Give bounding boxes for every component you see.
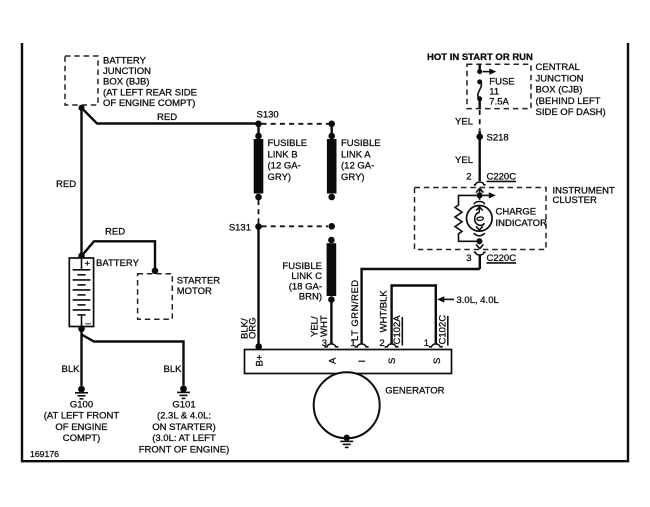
node charge indicator bottom [476, 238, 482, 244]
svg-text:C102A: C102A [392, 315, 403, 345]
label 3.0L 4.0L with arrow [437, 295, 499, 306]
generator box [245, 350, 452, 374]
svg-text:GRY): GRY) [268, 172, 292, 183]
svg-text:–: – [86, 318, 92, 329]
node BJB output [78, 105, 84, 111]
connector C220C pin 3 [466, 241, 516, 264]
resistor in cluster [455, 195, 480, 241]
svg-text:C102C: C102C [438, 315, 449, 345]
svg-text:YEL: YEL [455, 155, 473, 166]
svg-text:FUSIBLE: FUSIBLE [268, 138, 308, 149]
node battery negative [78, 326, 85, 333]
wire LT GRN/RED terminal I to C220C [350, 269, 480, 344]
wire BLK/ORG S131 to generator B+ [240, 227, 259, 349]
svg-text:3: 3 [322, 338, 327, 349]
ground G101 [139, 385, 230, 455]
svg-text:(3.0L: AT LEFT: (3.0L: AT LEFT [152, 433, 216, 444]
svg-text:1: 1 [350, 338, 355, 349]
svg-text:3: 3 [466, 253, 471, 264]
central junction box CJB [467, 62, 606, 118]
instrument cluster box [415, 186, 615, 250]
svg-text:RED: RED [56, 179, 76, 190]
svg-text:S130: S130 [257, 110, 279, 121]
svg-text:G101: G101 [172, 400, 195, 411]
svg-text:LINK C: LINK C [291, 271, 322, 282]
svg-text:MOTOR: MOTOR [177, 286, 212, 297]
svg-text:RED: RED [157, 112, 177, 123]
svg-text:+: + [85, 259, 91, 270]
node S131 [229, 223, 262, 234]
wire C220C pin 3 to generator terminal I [479, 255, 481, 269]
svg-text:3.0L, 4.0L: 3.0L, 4.0L [457, 295, 499, 306]
svg-text:OF ENGINE: OF ENGINE [55, 422, 107, 433]
svg-text:A: A [327, 357, 338, 364]
node S131 branch right [328, 223, 335, 230]
svg-text:BOX (BJB): BOX (BJB) [103, 77, 149, 88]
svg-text:COMPT): COMPT) [63, 433, 100, 444]
node battery positive [78, 253, 85, 260]
terminal S connector cup pin 1 C102C [424, 315, 449, 349]
svg-text:LT GRN/RED: LT GRN/RED [350, 279, 361, 341]
generator body circle [314, 372, 445, 438]
svg-text:SIDE OF DASH): SIDE OF DASH) [536, 107, 606, 118]
battery junction box BJB [65, 56, 197, 109]
svg-text:STARTER: STARTER [177, 276, 221, 287]
svg-text:WHT/BLK: WHT/BLK [378, 290, 389, 333]
terminal S connector cup pin 2 C102A [379, 315, 403, 349]
wire RED battery to starter motor [82, 227, 156, 270]
svg-text:1: 1 [424, 338, 429, 349]
svg-text:BLK: BLK [164, 364, 183, 375]
svg-text:S131: S131 [229, 223, 251, 234]
wire RED from BJB to battery [56, 108, 82, 256]
svg-text:BATTERY: BATTERY [96, 258, 140, 269]
fusible link B [254, 124, 307, 201]
wire RED from BJB to S130 [82, 108, 259, 124]
svg-text:I: I [357, 360, 368, 363]
svg-text:2: 2 [379, 338, 384, 349]
svg-text:CLUSTER: CLUSTER [553, 195, 597, 206]
svg-text:S: S [432, 358, 443, 364]
node starter motor terminal [152, 268, 159, 275]
fusible link A [327, 124, 381, 201]
charge indicator lamp [467, 195, 548, 235]
svg-text:YEL: YEL [455, 117, 473, 128]
svg-text:JUNCTION: JUNCTION [536, 73, 584, 84]
svg-text:S218: S218 [487, 132, 509, 143]
svg-text:G100: G100 [70, 400, 93, 411]
svg-text:(AT LEFT FRONT: (AT LEFT FRONT [44, 411, 120, 422]
starter motor [138, 274, 221, 320]
svg-text:FRONT OF ENGINE): FRONT OF ENGINE) [139, 444, 230, 455]
svg-text:(12 GA-: (12 GA- [268, 161, 301, 172]
svg-text:S: S [387, 358, 398, 364]
ground G100 [44, 386, 120, 444]
node S130 [255, 110, 278, 128]
node generator B+ terminal [255, 343, 262, 350]
svg-text:ORG: ORG [248, 317, 259, 339]
svg-text:CHARGE: CHARGE [496, 207, 537, 218]
fuse 11 7.5A [477, 64, 514, 108]
svg-text:HOT IN START OR RUN: HOT IN START OR RUN [427, 52, 533, 63]
terminal I connector cup pin 1 [350, 338, 368, 349]
svg-text:INDICATOR: INDICATOR [496, 218, 548, 229]
svg-text:(12 GA-: (12 GA- [341, 161, 374, 172]
svg-text:CENTRAL: CENTRAL [536, 62, 580, 73]
wire YEL S218 to C220C pin 2 [455, 137, 480, 181]
svg-text:WHT: WHT [319, 315, 330, 337]
node fusible link A top [328, 121, 335, 128]
svg-text:B+: B+ [255, 354, 266, 366]
svg-text:RED: RED [105, 227, 125, 238]
svg-text:BLK: BLK [62, 364, 81, 375]
wire WHT/BLK terminal S to terminal S [378, 286, 436, 345]
connector C220C pin 2 [466, 172, 516, 193]
svg-text:JUNCTION: JUNCTION [103, 66, 151, 77]
wire BLK battery to ground G101 [82, 335, 184, 386]
svg-text:OF ENGINE COMPT): OF ENGINE COMPT) [103, 98, 195, 109]
svg-text:(2.3L & 4.0L:: (2.3L & 4.0L: [157, 411, 211, 422]
ground generator case [340, 435, 353, 448]
svg-text:FUSIBLE: FUSIBLE [341, 138, 381, 149]
wire BLK battery to ground G100 [62, 329, 82, 386]
svg-text:7.5A: 7.5A [489, 96, 509, 107]
svg-text:(AT LEFT REAR SIDE: (AT LEFT REAR SIDE [103, 87, 197, 98]
node charge indicator top with arrow [477, 192, 496, 198]
svg-text:169176: 169176 [30, 449, 59, 459]
svg-text:GRY): GRY) [341, 172, 365, 183]
wire dashed link B to S131 [258, 200, 260, 224]
svg-text:LINK B: LINK B [268, 149, 298, 160]
svg-text:2: 2 [466, 172, 471, 183]
node S218 [476, 132, 508, 143]
svg-text:LINK A: LINK A [341, 149, 371, 160]
wire YEL fuse to S218 (dashed below box) [455, 110, 480, 137]
svg-text:GENERATOR: GENERATOR [385, 386, 444, 397]
svg-text:BOX (CJB): BOX (CJB) [536, 85, 583, 96]
battery [69, 258, 139, 329]
fusible link C [282, 237, 336, 303]
svg-text:(BEHIND LEFT: (BEHIND LEFT [536, 96, 601, 107]
wire dashed S131 to fusible link C [262, 225, 329, 227]
svg-text:BRN): BRN) [299, 292, 322, 303]
svg-text:ON STARTER): ON STARTER) [152, 422, 216, 433]
wire dashed S130 to fusible link A [262, 123, 332, 125]
wire YEL/WHT fusible link C to terminal A [310, 300, 332, 345]
svg-text:BATTERY: BATTERY [103, 56, 147, 67]
terminal A connector cup pin 3 [322, 338, 339, 349]
